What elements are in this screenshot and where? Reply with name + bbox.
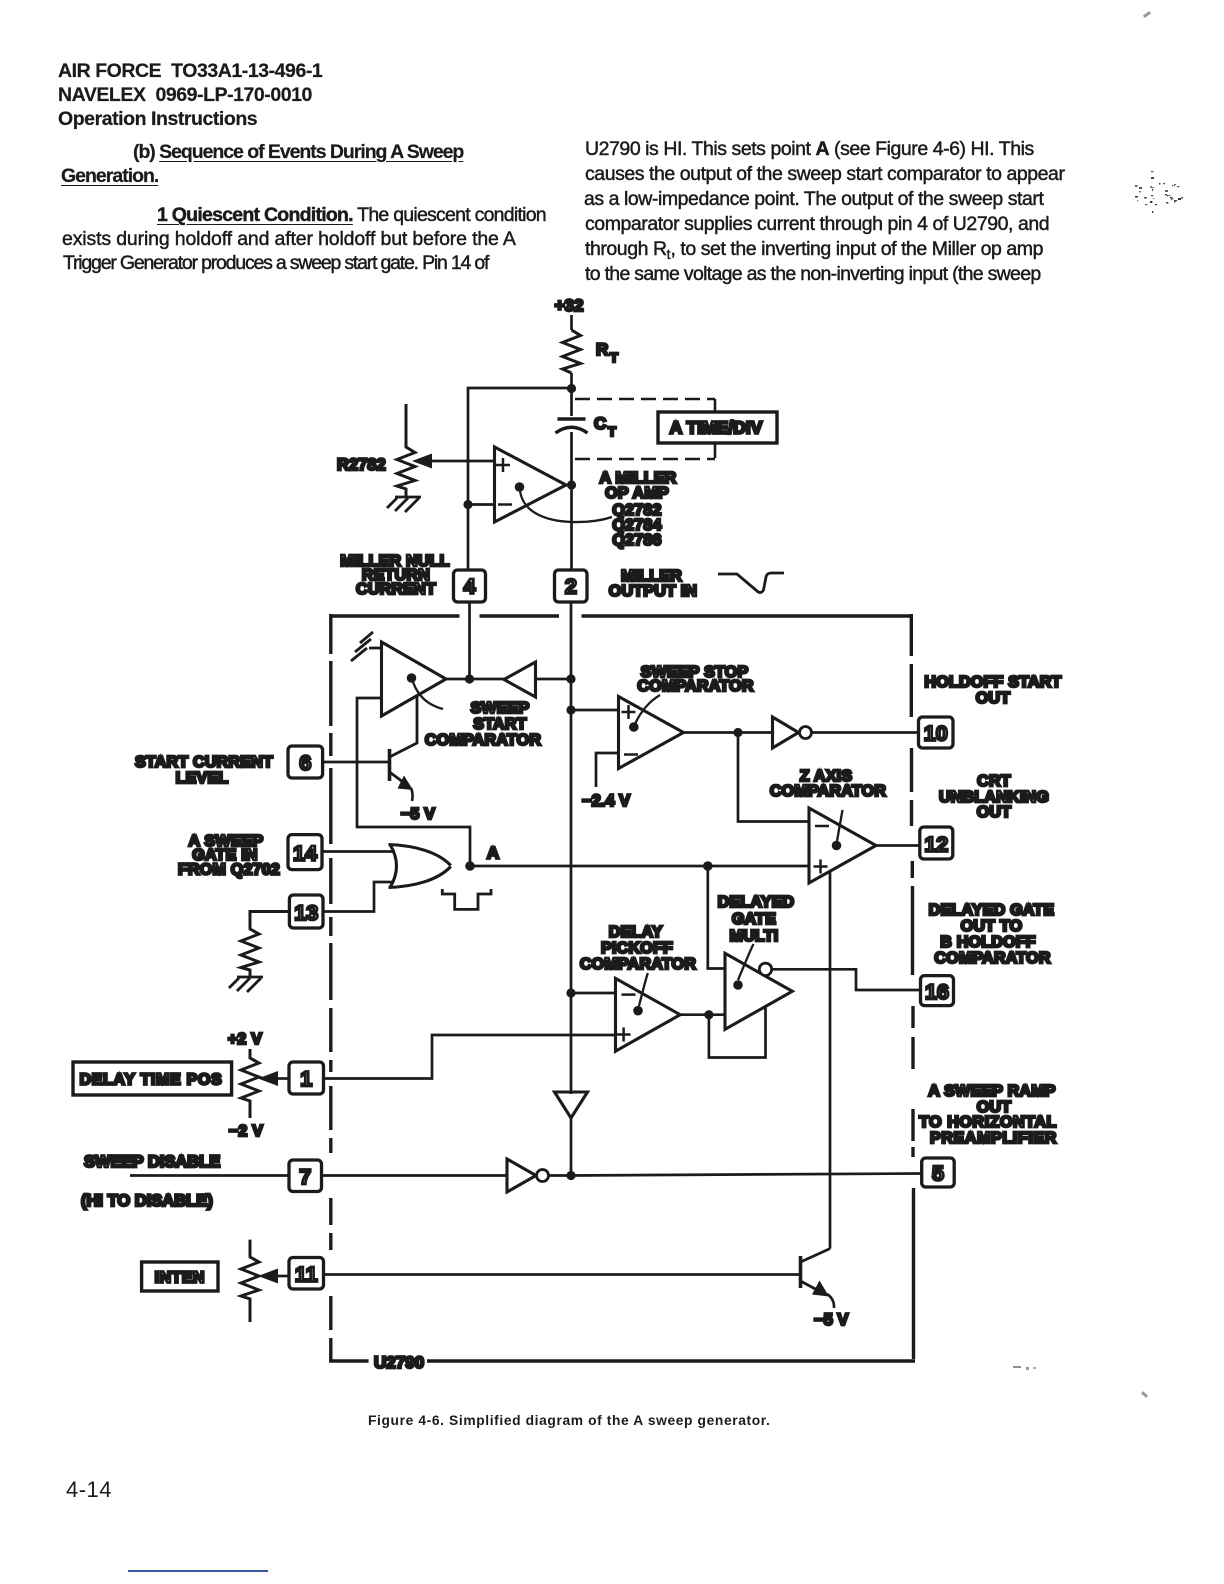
svg-text:16: 16 <box>925 980 949 1004</box>
wire minus input <box>468 503 495 506</box>
inverter to pin 10 <box>773 717 799 748</box>
svg-text:COMPARATOR: COMPARATOR <box>580 956 696 973</box>
potentiometer R2782 <box>397 404 415 497</box>
left column paragraph (b) <box>133 141 463 164</box>
wire pin 7 to inverter <box>322 1174 508 1177</box>
pin 11 box <box>289 1258 324 1290</box>
node minus input junction <box>463 500 472 509</box>
potentiometer DELAY TIME POS <box>241 1049 259 1118</box>
svg-text:Q2786: Q2786 <box>612 532 661 549</box>
svg-text:DELAYED: DELAYED <box>718 894 795 911</box>
figure caption <box>368 1413 770 1428</box>
callout dot Z axis <box>832 841 842 851</box>
svg-text:OP AMP: OP AMP <box>605 485 669 502</box>
page number <box>66 1477 112 1503</box>
svg-text:OUT TO: OUT TO <box>961 918 1023 935</box>
wire pickoff output to multi <box>680 1013 725 1016</box>
wiper arrow pot 1 <box>276 1077 289 1080</box>
dashed net to A TIME/DIV <box>575 399 715 459</box>
svg-text:START CURRENT: START CURRENT <box>135 754 273 771</box>
svg-text:−2 V: −2 V <box>229 1123 263 1140</box>
op-amp Z axis comparator <box>809 808 876 883</box>
pin 10 box <box>919 717 954 748</box>
svg-text:10: 10 <box>924 722 948 746</box>
resistor RT <box>563 330 581 373</box>
node sweep disable junction <box>566 1171 575 1180</box>
wire RT to junction <box>570 373 573 388</box>
multivibrator delayed gate multi <box>725 953 792 1029</box>
svg-text:MULTI: MULTI <box>730 928 779 945</box>
resistor at pin 13 <box>241 912 289 978</box>
svg-text:HOLDOFF START: HOLDOFF START <box>924 674 1061 691</box>
transistor output (inten) <box>801 1249 831 1292</box>
IC U2790 top border <box>331 614 911 617</box>
svg-text:T: T <box>608 424 616 439</box>
node sweep stop plus branch <box>566 705 575 714</box>
IC U2790 bottom border <box>331 1359 915 1361</box>
op-amp plus sign <box>496 458 510 472</box>
svg-text:−5 V: −5 V <box>814 1311 848 1329</box>
svg-text:COMPARATOR: COMPARATOR <box>770 783 886 800</box>
svg-text:INTEN: INTEN <box>155 1270 205 1287</box>
node center line at buffer <box>566 674 575 683</box>
svg-text:SWEEP: SWEEP <box>470 700 529 717</box>
left column paragraph 1 <box>157 204 546 227</box>
svg-text:6: 6 <box>299 751 311 775</box>
pin 14 box <box>288 835 322 870</box>
buffer left-pointing <box>504 662 536 697</box>
wire pin 2 down the middle <box>570 602 573 1094</box>
svg-text:OUTPUT IN: OUTPUT IN <box>609 583 697 600</box>
wire comparator output <box>446 678 504 681</box>
svg-text:(HI TO DISABLE): (HI TO DISABLE) <box>81 1192 213 1210</box>
svg-text:DELAY TIME POS: DELAY TIME POS <box>80 1072 223 1089</box>
pin 13 box <box>289 895 323 928</box>
header line 2 <box>58 84 312 107</box>
svg-text:T: T <box>610 350 618 365</box>
svg-text:R2782: R2782 <box>337 456 386 474</box>
svg-text:+2 V: +2 V <box>228 1031 262 1048</box>
wiper arrow pot inten <box>276 1275 289 1278</box>
IC U2790 left border (dashed) <box>329 614 332 1361</box>
callout dot sweep start <box>407 673 417 683</box>
node op-amp output <box>567 480 576 489</box>
wire multi output to pin 16 <box>772 969 921 990</box>
svg-text:5: 5 <box>932 1162 944 1186</box>
wire feedback from node A to comparator lower input <box>357 698 470 866</box>
ground below R2782 <box>387 497 421 512</box>
minus sign Z axis <box>815 825 829 828</box>
right column paragraph <box>585 138 1034 161</box>
svg-text:12: 12 <box>924 833 948 857</box>
svg-text:OUT: OUT <box>977 804 1012 821</box>
wire pin 6 to base <box>323 761 390 764</box>
node sweep stop output branch <box>733 728 742 737</box>
wire op-amp output <box>566 484 572 487</box>
wire sweep stop output <box>684 731 773 734</box>
wire node A line <box>470 865 809 868</box>
svg-text:CURRENT: CURRENT <box>356 581 436 598</box>
svg-text:COMPARATOR: COMPARATOR <box>425 732 541 749</box>
OR gate <box>389 845 451 888</box>
wire -2.4V to minus input <box>596 753 619 787</box>
pin 5 box <box>922 1158 955 1187</box>
svg-text:13: 13 <box>294 901 318 925</box>
plus sign pickoff <box>617 1028 631 1042</box>
ground chassis top-left <box>351 632 382 661</box>
leader curve pickoff to label <box>639 973 648 1006</box>
box A TIME/DIV <box>658 412 777 443</box>
junction node top <box>567 384 576 393</box>
leader curve multi to label <box>738 944 754 980</box>
svg-text:FROM Q2702: FROM Q2702 <box>178 862 280 879</box>
node pickoff minus on center line <box>566 988 575 997</box>
leader curve op-amp to label <box>520 491 612 522</box>
callout dot multi <box>733 980 743 990</box>
plus sign Z axis <box>814 860 828 874</box>
potentiometer INTEN <box>241 1240 259 1322</box>
blue pen line bottom left <box>128 1570 268 1572</box>
svg-text:−5 V: −5 V <box>401 806 435 823</box>
scan speckle smudge <box>1135 171 1183 213</box>
wire inverter to junction <box>549 1174 572 1177</box>
wire branch down to Z axis minus <box>738 733 809 822</box>
bubble delayed gate multi <box>759 963 771 975</box>
node A branch dot <box>703 861 713 871</box>
op-amp sweep start comparator <box>382 642 447 716</box>
waveform miller output <box>718 573 784 593</box>
svg-text:OUT: OUT <box>976 690 1011 707</box>
svg-text:1: 1 <box>300 1067 312 1091</box>
wire pin 1 to pickoff plus <box>324 1035 616 1079</box>
capacitor CT top plate wire <box>570 388 573 416</box>
pin 1 box <box>289 1062 324 1094</box>
svg-text:DELAYED GATE: DELAYED GATE <box>929 902 1055 919</box>
wire junction to pin 5 <box>571 1174 922 1176</box>
wire multi feedback loop <box>709 1007 766 1058</box>
leader curve sweep start to label <box>413 682 443 709</box>
wire junction to left branch <box>468 388 572 570</box>
svg-text:LEVEL: LEVEL <box>176 770 229 787</box>
box DELAY TIME POS <box>73 1062 232 1095</box>
callout dot pickoff <box>633 1006 643 1016</box>
pin 6 box <box>288 746 323 778</box>
svg-text:SWEEP DISABLE: SWEEP DISABLE <box>84 1153 220 1171</box>
node pin4 line joins output <box>465 674 474 683</box>
op-amp delay pickoff comparator <box>616 978 681 1051</box>
inverter sweep disable <box>507 1159 536 1192</box>
svg-text:−2.4 V: −2.4 V <box>582 792 630 810</box>
IC U2790 right border (dashed) <box>911 614 913 1359</box>
pin 7 box <box>289 1160 322 1192</box>
wire inverter to pin 10 <box>812 731 919 734</box>
leader curve Z axis to label <box>837 810 843 841</box>
svg-text:B HOLDOFF: B HOLDOFF <box>940 934 1036 951</box>
svg-text:C: C <box>594 414 606 433</box>
node A dot at OR output <box>465 861 475 871</box>
wire center node to sweep stop plus input <box>571 709 619 712</box>
callout dot op-amp <box>515 482 525 492</box>
svg-text:GATE: GATE <box>732 911 776 928</box>
op-amp minus sign <box>498 503 512 506</box>
header line 3 <box>58 108 257 131</box>
wire Z axis down to output transistor <box>829 871 832 1248</box>
transistor Q start current <box>390 696 418 785</box>
plus sign sweep stop <box>622 705 636 719</box>
wire Z axis output to pin 12 <box>876 844 920 847</box>
svg-text:2: 2 <box>565 575 577 599</box>
callout dot sweep stop <box>629 722 639 732</box>
wire sweep disable input <box>130 1174 289 1177</box>
svg-text:R: R <box>596 340 608 359</box>
svg-text:4: 4 <box>464 575 476 599</box>
svg-text:11: 11 <box>295 1263 318 1287</box>
svg-text:7: 7 <box>299 1165 311 1189</box>
header line 1 <box>58 60 322 83</box>
wire pin 14 to OR input <box>323 850 395 853</box>
minus sign pickoff <box>622 993 636 996</box>
ground below pin 13 resistor <box>229 977 263 992</box>
leader curve sweep stop to label <box>636 695 661 723</box>
svg-text:PICKOFF: PICKOFF <box>601 940 673 957</box>
svg-text:14: 14 <box>293 842 317 866</box>
wire pin 4 down to comparator output <box>468 602 471 679</box>
wire buffer to center line <box>536 678 572 681</box>
op-amp sweep stop comparator <box>619 697 684 769</box>
capacitor CT <box>558 417 586 420</box>
svg-text:CRT: CRT <box>977 773 1011 790</box>
pin 4 box <box>454 570 486 602</box>
svg-text:START: START <box>473 716 526 733</box>
wire pin 11 to transistor base <box>324 1273 801 1276</box>
wire pin 13 to OR input <box>323 882 393 912</box>
waveform gate pulse <box>442 889 491 909</box>
pin 16 box <box>921 976 954 1006</box>
wire CT to pin 2 <box>570 432 573 570</box>
pin 2 box <box>555 570 588 602</box>
wire +32 to RT <box>570 315 573 330</box>
scan smudge right margin <box>1143 11 1151 18</box>
svg-text:A: A <box>487 844 499 863</box>
box INTEN <box>142 1262 218 1291</box>
svg-text:COMPARATOR: COMPARATOR <box>934 950 1050 967</box>
svg-text:A TIME/DIV: A TIME/DIV <box>670 418 763 438</box>
wire triangle to junction <box>570 1118 573 1176</box>
svg-text:+32: +32 <box>555 296 584 315</box>
svg-text:U2790: U2790 <box>374 1353 424 1372</box>
node pickoff output <box>704 1010 713 1019</box>
svg-text:COMPARATOR: COMPARATOR <box>637 678 753 695</box>
wire center line to pickoff minus <box>571 992 616 995</box>
diode buffer down on center line <box>555 1092 588 1118</box>
op-amp A Miller (Q2782/Q2784/Q2786) <box>495 447 567 522</box>
minus sign sweep stop <box>624 753 638 756</box>
svg-text:A SWEEP RAMP: A SWEEP RAMP <box>928 1083 1056 1100</box>
pin 12 box <box>920 827 953 859</box>
svg-text:DELAY: DELAY <box>609 924 663 941</box>
svg-text:TO HORIZONTAL: TO HORIZONTAL <box>919 1114 1057 1131</box>
wire A branch down to delayed gate multi <box>708 866 725 969</box>
wiper arrow into R2782 <box>430 460 494 463</box>
svg-text:PREAMPLIFIER: PREAMPLIFIER <box>930 1130 1057 1147</box>
